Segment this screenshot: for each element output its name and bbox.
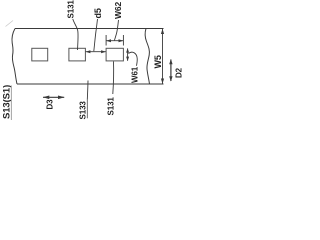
band S13 top edge: [15, 28, 164, 30]
svg-text:S133: S133: [79, 101, 88, 120]
W61 leader: [128, 52, 137, 66]
W62 extension line right: [122, 35, 124, 46]
pad square 3 (S131): [106, 48, 123, 61]
band left broken wavy edge: [12, 29, 17, 85]
W62 leader: [114, 20, 118, 40]
S13(S1) underline: [10, 86, 12, 121]
svg-text:S131: S131: [107, 97, 116, 116]
d5 gap double arrow: [86, 51, 106, 53]
D2 direction double arrow: [170, 60, 172, 82]
W62 extension line left: [105, 35, 107, 46]
svg-text:W5: W5: [153, 55, 163, 68]
S131 bottom leader from square 3: [112, 62, 115, 95]
pad square 2 (S131): [69, 48, 86, 61]
band S13 bottom edge: [17, 83, 164, 85]
S133 leader: [86, 81, 89, 100]
svg-text:W61: W61: [131, 66, 140, 83]
svg-text:S131: S131: [66, 0, 75, 19]
pad square 1: [32, 48, 48, 61]
D3 direction double arrow: [43, 96, 64, 98]
W62 dimension line with outward arrows: [106, 40, 123, 42]
svg-text:W62: W62: [113, 1, 123, 19]
W5 dimension line: [162, 29, 164, 85]
band right broken wavy edge: [145, 29, 149, 85]
svg-text:D3: D3: [46, 99, 55, 110]
S131 top leader into square 2: [73, 19, 78, 50]
S133 underline: [86, 100, 88, 119]
svg-text:D2: D2: [175, 67, 184, 78]
svg-text:S13(S1): S13(S1): [2, 85, 13, 119]
d5 leader: [94, 19, 98, 51]
faint scan mark top-left: [6, 21, 14, 27]
svg-text:d5: d5: [93, 8, 103, 18]
W61 height double arrow: [127, 48, 129, 60]
